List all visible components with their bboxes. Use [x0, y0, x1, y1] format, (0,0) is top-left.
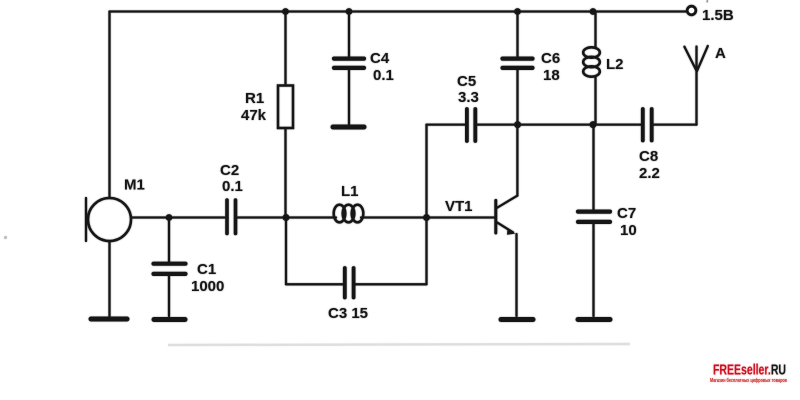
wire M1 bottom to ground [108, 241, 110, 316]
wire C2 to junction A [238, 216, 288, 218]
svg-text:C3 15: C3 15 [328, 305, 368, 322]
node junction A [283, 214, 290, 221]
node junction C [514, 121, 521, 128]
wire junction B up to C5 line [425, 125, 427, 218]
resistor R1 [278, 12, 293, 218]
svg-text:1000: 1000 [191, 278, 224, 295]
wire top supply rail [110, 10, 688, 12]
capacitor C2 [227, 200, 236, 234]
inductor L1 [287, 205, 427, 223]
svg-text:VT1: VT1 [445, 198, 473, 215]
svg-text:0.1: 0.1 [222, 178, 243, 195]
antenna A [684, 46, 707, 125]
label C5 value [457, 73, 479, 106]
node rail-C6 [514, 8, 521, 15]
svg-text:FREEseller.RU: FREEseller.RU [713, 363, 786, 379]
capacitor C6 [503, 12, 533, 125]
ground M1 [91, 317, 127, 322]
wire C3 bottom right [356, 283, 427, 285]
wire C3 bottom left [286, 283, 343, 285]
wire C3 loop left [285, 218, 287, 285]
wire C8 to antenna [654, 123, 697, 125]
label C4 value [370, 50, 394, 84]
capacitor C4 [334, 12, 364, 125]
capacitor C3 [345, 268, 354, 298]
svg-text:C7: C7 [617, 205, 636, 222]
svg-text:C2: C2 [220, 162, 239, 179]
svg-text:C8: C8 [639, 148, 658, 165]
node rail-C4 [346, 8, 353, 15]
node junction D [590, 121, 597, 128]
svg-text:47k: 47k [241, 107, 267, 124]
wire left vertical from rail to M1 [108, 12, 110, 199]
svg-text:M1: M1 [124, 177, 145, 194]
wire base VT1 [427, 216, 495, 218]
ground C1 [154, 317, 185, 322]
transistor VT1 [496, 125, 518, 316]
label C1 value [191, 261, 224, 295]
svg-text:0.1: 0.1 [373, 67, 394, 84]
faint scan streak [168, 344, 630, 345]
svg-text:C1: C1 [197, 261, 216, 278]
battery terminal [687, 6, 696, 15]
wire C5 left [427, 123, 466, 125]
microphone M1 [86, 198, 131, 241]
inductor L2 [583, 12, 600, 125]
node rail-L2 [590, 8, 597, 15]
svg-text:10: 10 [620, 222, 637, 239]
svg-text:1.5В: 1.5В [702, 7, 734, 24]
scan artifact tick top [706, 0, 709, 3]
svg-text:C4: C4 [370, 50, 390, 67]
capacitor C1 [154, 218, 186, 317]
wire C5 to C8 [477, 123, 641, 125]
svg-text:A: A [715, 45, 726, 62]
svg-text:L1: L1 [341, 183, 359, 200]
FREEseller.RU logo [710, 363, 787, 385]
svg-text:Магазин бесплатных цифровых то: Магазин бесплатных цифровых товаров [710, 377, 787, 384]
wire C3 loop right up to junction B [425, 218, 427, 285]
label C6 value [541, 50, 560, 84]
svg-text:R1: R1 [245, 90, 264, 107]
svg-text:L2: L2 [606, 56, 624, 73]
ground VT1 emitter [501, 317, 533, 322]
ground C4 [333, 125, 364, 130]
ground C7 [578, 317, 610, 322]
label C2 value [220, 162, 243, 195]
svg-text:3.3: 3.3 [458, 89, 479, 106]
node C1 junction [166, 214, 173, 221]
label R1 value [241, 90, 267, 124]
node rail-R1 [282, 8, 289, 15]
capacitor C7 [578, 125, 610, 316]
scan artifact dot left [4, 236, 7, 239]
wire M1 to C2 [132, 216, 225, 218]
capacitor C8 [643, 109, 652, 141]
svg-text:2.2: 2.2 [639, 165, 660, 182]
svg-text:18: 18 [543, 67, 560, 84]
svg-text:C6: C6 [541, 50, 560, 67]
label C7 value [617, 205, 637, 239]
label C8 value [639, 148, 660, 182]
node junction B [423, 214, 430, 221]
capacitor C5 [467, 109, 475, 141]
svg-text:C5: C5 [457, 73, 476, 90]
